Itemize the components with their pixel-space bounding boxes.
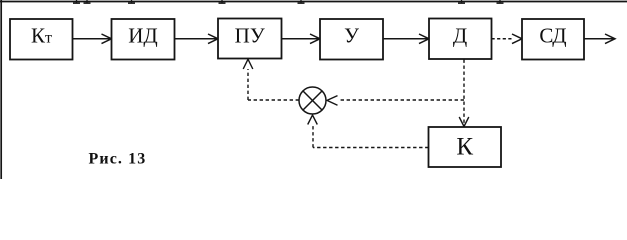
output wire from СД <box>584 34 615 44</box>
block ПУ <box>218 19 282 59</box>
cut-off text remnant marks along top <box>73 0 504 3</box>
dashed wire mixer left to ПУ bottom <box>243 59 299 100</box>
block Д <box>429 19 492 60</box>
svg-text:СД: СД <box>539 24 566 48</box>
wire У to Д <box>383 34 429 44</box>
svg-text:Д: Д <box>453 24 467 48</box>
block СД <box>522 19 584 60</box>
dashed wire К to mixer bottom <box>308 115 429 148</box>
block К <box>429 127 502 167</box>
frame top border line <box>0 1 627 3</box>
svg-text:ИД: ИД <box>128 24 158 48</box>
block ИД <box>112 19 175 60</box>
dashed wire junction to mixer right <box>327 96 464 106</box>
mixer (multiplier) circle <box>299 87 326 114</box>
block Кт <box>10 19 73 60</box>
block У <box>320 19 383 60</box>
dashed wire Д down to К <box>459 60 469 127</box>
wire ИД to ПУ <box>175 34 219 44</box>
wire Кт to ИД <box>73 34 112 44</box>
svg-text:У: У <box>344 24 359 48</box>
svg-text:Рис. 13: Рис. 13 <box>89 151 147 168</box>
svg-text:ПУ: ПУ <box>235 24 265 48</box>
dashed wire Д to СД <box>492 34 523 44</box>
wire ПУ to У <box>282 34 321 44</box>
svg-text:К: К <box>456 134 473 161</box>
frame left border line <box>0 0 2 179</box>
